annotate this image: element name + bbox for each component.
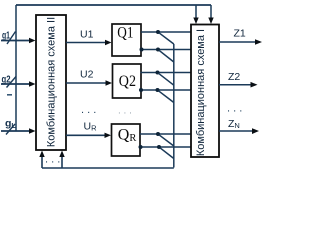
node tap dot on QR upper output <box>156 132 160 136</box>
combinational circuit II box (KC II) <box>36 15 66 150</box>
svg-text:Комбинационная схема II: Комбинационная схема II <box>45 17 57 147</box>
combinational circuit I box (KC I) <box>191 25 219 158</box>
wire: left feedback riser into KC II bottom <box>41 156 43 168</box>
flip-flop Q2 box <box>113 64 142 98</box>
wire: ZN arrowhead <box>252 128 259 134</box>
wire: gL arrowhead <box>29 128 36 133</box>
svg-text:U2: U2 <box>80 68 94 80</box>
svg-text:. . .: . . . <box>227 103 242 115</box>
wire Q1 upper output to KC I <box>141 31 191 33</box>
node tap dot on Q1 upper output <box>156 30 160 34</box>
flip-flop Q1 box <box>112 24 141 56</box>
svg-text:g1: g1 <box>2 30 10 42</box>
svg-text:. . .: . . . <box>118 106 132 117</box>
wire: g2 arrowhead <box>29 81 36 86</box>
svg-text:Q1: Q1 <box>117 24 133 41</box>
svg-text:Комбинационная схема I: Комбинационная схема I <box>195 29 207 156</box>
wire: diagonal tap from Q2 lower output to feedback bus <box>159 91 174 103</box>
node tap dot on Q2 upper output <box>156 71 160 75</box>
wire: bottom feedback line <box>42 167 174 169</box>
wire U2 from KC II to Q2 <box>66 82 108 84</box>
wire: g1 arrowhead <box>29 38 36 43</box>
svg-text:g2: g2 <box>2 74 11 86</box>
wire: left vertical g-bus x=16 from top line down to gL line <box>15 5 17 131</box>
svg-text:U1: U1 <box>80 29 94 41</box>
wire: diagonal tap from QR lower output to feedback bus <box>160 148 174 159</box>
wire: diagonal tap from Q2 upper output to feedback bus <box>159 73 174 85</box>
node tap dot on Q2 lower output <box>156 88 160 92</box>
wire ZN output <box>219 130 254 132</box>
svg-text:. . .: . . . <box>45 154 60 166</box>
wire: UR arrowhead <box>105 133 112 138</box>
wire: arrowhead down into KC I (drop 1) <box>193 18 198 25</box>
svg-text:. . .: . . . <box>81 104 96 116</box>
wire: top feedback drop 2 into KC I <box>210 5 212 18</box>
wire: arrowhead up into KC II (left riser) <box>39 151 44 158</box>
node g2 input wire <box>1 83 31 85</box>
wire Q2 upper output to KC I <box>141 72 192 74</box>
wire QR lower output to KC I <box>140 146 191 148</box>
wire: U2 arrowhead <box>106 80 113 85</box>
svg-text:Z1: Z1 <box>234 28 246 40</box>
node tap dot on Q1 lower output <box>156 48 160 52</box>
wire: top feedback drop 1 into KC I <box>195 5 197 18</box>
wire Z2 output <box>219 84 252 86</box>
node dot at Q2 lower output pin <box>139 88 143 92</box>
svg-text:Q2: Q2 <box>119 73 136 90</box>
wire: gL bus slash <box>6 124 15 135</box>
wire Q1 lower output to KC I <box>141 49 191 51</box>
wire: vertical feedback bus <box>173 44 175 168</box>
wire: arrowhead down into KC I (drop 2) <box>208 18 213 25</box>
wire: second feedback riser into KC II bottom <box>61 156 63 168</box>
node gL input wire <box>1 130 31 132</box>
wire: Z2 arrowhead <box>251 82 258 88</box>
wire: diagonal tap from Q1 upper output to feedback bus <box>159 33 174 44</box>
wire U1 from KC II to Q1 <box>66 42 107 44</box>
node dot at QR lower output pin <box>139 145 143 149</box>
wire Q2 lower output to KC I <box>141 89 192 91</box>
wire Z1 output <box>219 41 257 43</box>
wire: U1 arrowhead <box>105 40 112 45</box>
wire: arrowhead up into KC II (second riser) <box>59 151 64 158</box>
node g1 input wire <box>1 40 31 42</box>
node tap dot on QR lower output <box>157 145 161 149</box>
wire QR upper output to KC I <box>140 133 191 135</box>
wire: Z1 arrowhead <box>255 39 262 45</box>
wire UR from KC II to QR <box>66 134 107 136</box>
flip-flop QR box <box>112 124 141 156</box>
wire: top feedback line from g-bus to KC I <box>16 4 211 6</box>
node dot at Q1 lower output pin <box>140 48 144 52</box>
wire: diagonal tap from Q1 lower output to feedback bus <box>159 50 174 62</box>
svg-text:Z2: Z2 <box>228 71 240 83</box>
wire: diagonal tap from QR upper output to feedback bus <box>159 135 174 146</box>
wire: g1 bus slash <box>7 32 16 45</box>
wire: g2 bus slash <box>7 77 17 88</box>
ellipsis between g2 and gL <box>7 94 12 96</box>
